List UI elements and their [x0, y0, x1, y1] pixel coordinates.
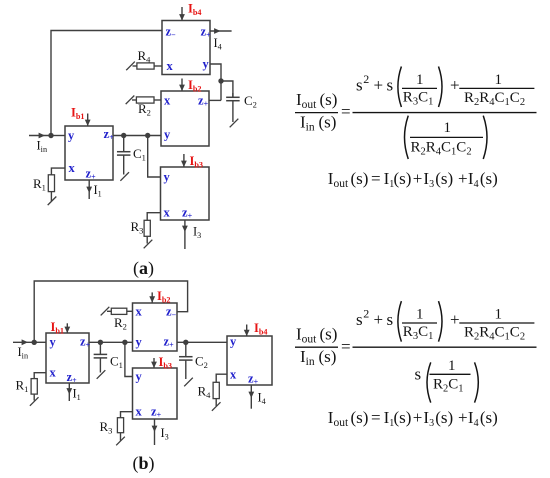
wire: R2 lead — [132, 99, 136, 101]
wire: x of U3b to R3 — [121, 412, 133, 418]
wire: x of U2a to R2 — [154, 99, 161, 101]
ground of R3 (a) — [144, 240, 153, 249]
svg-text:x: x — [230, 368, 237, 382]
svg-text:(s): (s) — [320, 90, 338, 109]
svg-text:=: = — [341, 337, 351, 356]
node: input junction (b) — [32, 340, 37, 345]
svg-text:x: x — [69, 161, 76, 175]
block U4b (current conveyor, right) — [227, 336, 272, 385]
svg-text:s: s — [356, 310, 363, 329]
block U2a (current conveyor, middle) — [161, 91, 209, 146]
svg-text:s: s — [387, 76, 394, 95]
denominator (1/R2R4C1C2) — [405, 116, 409, 159]
svg-text:s: s — [356, 76, 363, 95]
ground of C2 (b) — [184, 378, 193, 387]
svg-text:y: y — [136, 370, 143, 384]
svg-text:+: + — [413, 169, 423, 188]
resistor R4 (b) — [213, 382, 219, 398]
wire: junction to y of U1a — [51, 135, 65, 137]
output arrow I1 (b) — [68, 383, 70, 401]
capacitor C2 (a) — [232, 93, 234, 97]
ground of R3 (b) — [116, 437, 125, 446]
output arrow I4 (a) — [210, 30, 232, 32]
svg-text:y: y — [164, 128, 171, 142]
resistor R3 (b) — [117, 418, 123, 433]
wire: Iin input arrow (a) — [29, 135, 51, 137]
bias arrow Ib3 (a) — [183, 154, 185, 167]
capacitor C2 (b) — [185, 342, 187, 356]
ground of C2 (a) — [230, 119, 239, 128]
svg-text:y: y — [164, 170, 171, 184]
svg-text:x: x — [50, 366, 57, 380]
wire: junction to C2 — [221, 81, 233, 98]
wire: Iin input arrow (b) — [13, 341, 34, 343]
block U3b (current conveyor, bottom middle) — [133, 368, 178, 419]
bias arrow Ib3 (b) — [153, 358, 155, 368]
output arrow I3 (b) — [154, 419, 156, 445]
wire: x of U1a to R1 — [51, 168, 65, 175]
resistor R4 (a) — [137, 63, 154, 69]
ground of R4 (a) — [126, 62, 135, 71]
svg-text:(s): (s) — [435, 169, 453, 188]
ground of C1 (b) — [97, 370, 106, 379]
svg-text:1: 1 — [495, 307, 503, 323]
wire: R2 lead — [107, 310, 111, 312]
svg-text:(b): (b) — [133, 453, 155, 474]
svg-text:=: = — [371, 169, 381, 188]
output arrow I1 (a) — [88, 180, 90, 199]
svg-text:R2R4C1C2: R2R4C1C2 — [464, 324, 525, 342]
svg-text:R2R4C1C2: R2R4C1C2 — [411, 139, 472, 157]
svg-text:+: + — [374, 310, 384, 329]
wire: feedback rail to z- of U4a — [51, 31, 162, 136]
svg-text:x: x — [167, 59, 174, 73]
resistor R2 (b) — [111, 308, 127, 314]
wire: R1 lead — [33, 394, 35, 400]
svg-text:(s): (s) — [319, 112, 337, 131]
wire: x of U1b to R1 — [34, 373, 46, 379]
svg-text:s: s — [387, 310, 394, 329]
svg-text:1: 1 — [444, 120, 452, 136]
main fraction bar (b) — [353, 346, 537, 348]
main fraction bar (a) — [353, 112, 537, 114]
wire: x of U2b to R2 — [127, 310, 133, 312]
svg-text:(s): (s) — [435, 408, 453, 427]
output arrow I3 (a) — [184, 220, 186, 249]
wire: x of U4a to R4 — [154, 65, 162, 67]
node: U3b branch tap (b) — [122, 340, 127, 345]
svg-text:=: = — [341, 102, 351, 121]
svg-text:y: y — [136, 335, 143, 349]
svg-text:1: 1 — [416, 307, 424, 323]
svg-text:(s): (s) — [480, 169, 498, 188]
svg-text:2: 2 — [363, 72, 369, 86]
svg-text:(s): (s) — [320, 325, 338, 344]
wire: x of U3a to R3 — [147, 213, 160, 221]
block U4a (current conveyor, top) — [162, 21, 210, 75]
bias arrow Ib4 (a) — [181, 7, 183, 21]
node: C2 junction (a) — [218, 78, 223, 83]
block U3a (current conveyor, bottom) — [161, 167, 210, 220]
wire: R1 lead — [50, 192, 52, 201]
svg-text:x: x — [136, 405, 143, 419]
ground of R2 (b) — [101, 307, 110, 316]
ground of R2 (a) — [126, 95, 135, 104]
wire: R4 lead — [133, 65, 137, 67]
svg-text:=: = — [371, 408, 381, 427]
svg-text:+: + — [413, 408, 423, 427]
node: C2 tap (b) — [183, 340, 188, 345]
bias arrow Ib4 (b) — [246, 325, 248, 337]
ground of R4 (b) — [212, 402, 221, 411]
wire: R3 lead — [146, 236, 148, 243]
svg-text:(s): (s) — [319, 347, 337, 366]
block U1a (current conveyor, left) — [65, 126, 113, 180]
node: input junction (a) — [48, 133, 53, 138]
svg-text:(s): (s) — [394, 408, 412, 427]
capacitor C1 (b) — [99, 342, 101, 354]
svg-text:(s): (s) — [480, 408, 498, 427]
wire: x of U4b to R4 — [216, 374, 227, 382]
wire: R4 lead — [215, 399, 217, 406]
wire: R3 lead — [120, 433, 122, 441]
node: U3a branch tap (a) — [145, 133, 150, 138]
ground of C1 (a) — [120, 172, 129, 181]
ground of R1 (b) — [30, 397, 39, 406]
svg-text:+: + — [458, 169, 468, 188]
svg-text:+: + — [450, 76, 460, 95]
svg-text:R2R4C1C2: R2R4C1C2 — [464, 90, 525, 108]
bias arrow Ib1 (b) — [66, 323, 68, 333]
svg-text:1: 1 — [416, 72, 424, 88]
svg-text:1: 1 — [448, 358, 456, 374]
svg-text:y: y — [68, 129, 75, 143]
block U1b (current conveyor, left) — [46, 333, 89, 383]
resistor R1 (b) — [31, 379, 37, 395]
svg-text:x: x — [136, 305, 143, 319]
wire: z+ of U1a to y of U2a — [113, 135, 161, 137]
svg-text:1: 1 — [495, 72, 503, 88]
svg-text:y: y — [230, 335, 237, 349]
bias arrow Ib1 (a) — [87, 114, 89, 127]
svg-text:2: 2 — [363, 307, 369, 321]
svg-text:y: y — [50, 335, 57, 349]
wire: y of U4a down to z+ of U2a — [210, 64, 221, 100]
wire: z+ of U1b to y of U2b — [89, 341, 133, 343]
bias arrow Ib2 (b) — [151, 292, 153, 302]
block U2b (current conveyor, top middle) — [133, 303, 178, 351]
ground of R1 (a) — [48, 196, 57, 205]
capacitor C1 (a) — [123, 136, 125, 152]
svg-text:x: x — [164, 206, 171, 220]
svg-text:s: s — [415, 365, 422, 384]
svg-text:x: x — [164, 94, 171, 108]
wire: tap down to y of U3b — [125, 342, 133, 376]
wire: z+ of U2a out — [209, 99, 221, 101]
output arrow I4 (b) — [250, 385, 252, 409]
svg-text:(s): (s) — [394, 169, 412, 188]
bias arrow Ib2 (a) — [181, 79, 183, 92]
svg-text:+: + — [450, 310, 460, 329]
svg-text:(a): (a) — [133, 258, 154, 279]
svg-text:+: + — [374, 76, 384, 95]
resistor R2 (a) — [136, 97, 154, 103]
wire: z+ of U2b to y of U4b — [177, 341, 227, 343]
wire: tap down to y of U3a — [148, 136, 161, 178]
wire: junction to y of U1b — [34, 341, 46, 343]
svg-text:(s): (s) — [351, 169, 369, 188]
node: C1 tap (a) — [121, 133, 126, 138]
resistor R3 (a) — [144, 220, 150, 236]
svg-text:y: y — [203, 57, 210, 71]
wire: feedback rail from junction to z- of U2b — [34, 281, 187, 342]
svg-text:+: + — [458, 408, 468, 427]
node: C1 tap (b) — [98, 340, 103, 345]
svg-text:(s): (s) — [351, 408, 369, 427]
resistor R1 (a) — [48, 175, 54, 192]
